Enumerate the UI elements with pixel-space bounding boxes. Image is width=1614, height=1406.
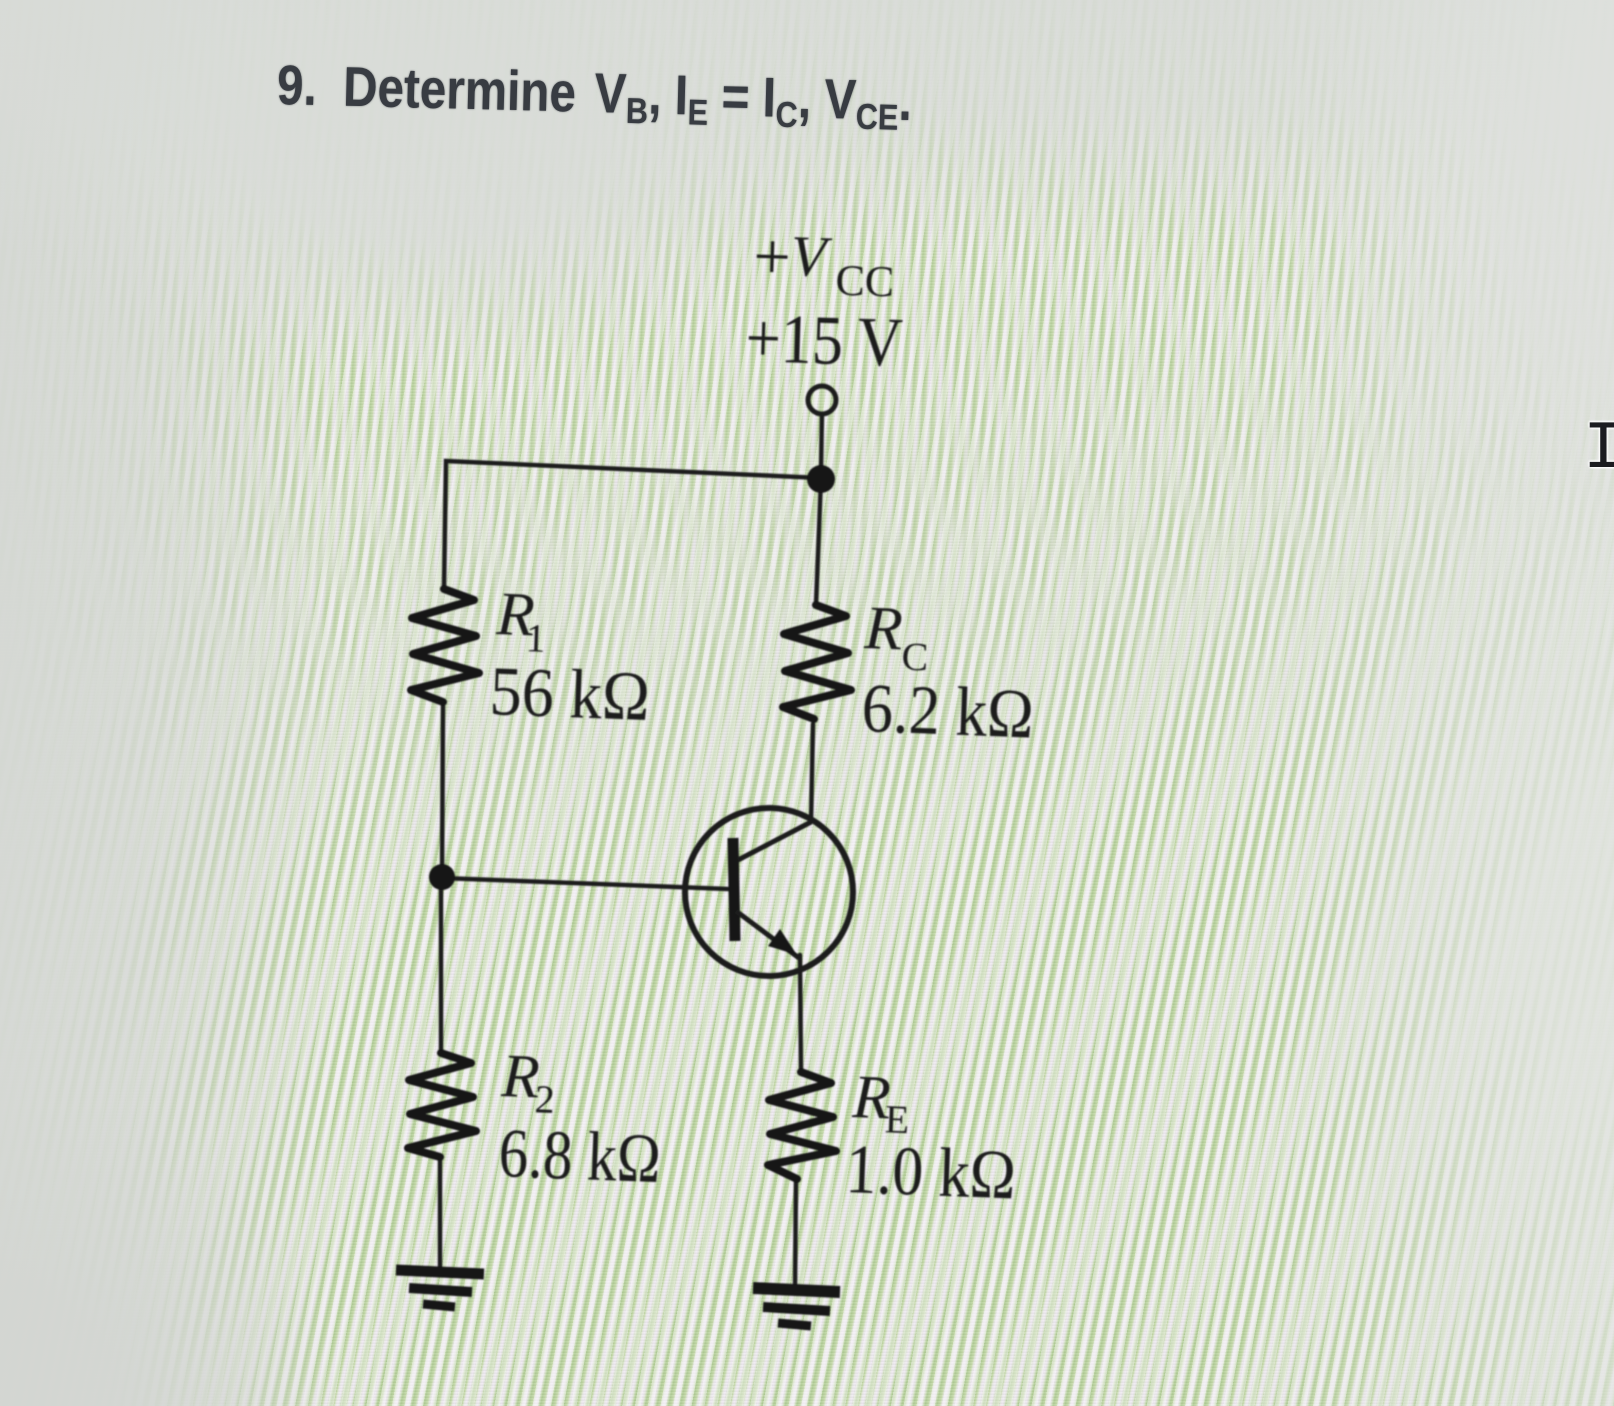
- wire RE to right ground: [795, 1179, 796, 1289]
- svg-text:1.0 kΩ: 1.0 kΩ: [844, 1131, 1017, 1214]
- transistor emitter lead: [736, 911, 799, 958]
- base node dot: [429, 864, 455, 890]
- emitter arrowhead: [768, 929, 797, 955]
- svg-text:6.8 kΩ: 6.8 kΩ: [497, 1115, 662, 1198]
- svg-text:RC: RC: [862, 594, 931, 679]
- transistor collector lead: [738, 822, 811, 860]
- junction dot at Vcc rail: [807, 465, 835, 493]
- resistor R2 zigzag: [408, 1053, 476, 1157]
- resistor RE zigzag: [768, 1072, 836, 1179]
- wire top horizontal and left vertical to R1: [444, 461, 821, 589]
- wire emitter to RE: [800, 955, 801, 1072]
- transistor base bar: [733, 838, 735, 941]
- text cursor I at right edge: [1583, 411, 1614, 488]
- Vcc terminal (open circle): [808, 386, 836, 414]
- resistor RC zigzag: [783, 605, 851, 719]
- transistor body circle: [685, 808, 853, 976]
- resistor R1 zigzag: [411, 589, 479, 702]
- wire base node to transistor base: [442, 878, 728, 889]
- wire base node to R2: [439, 878, 444, 1053]
- wire RC to collector: [811, 724, 813, 822]
- svg-text:R1: R1: [494, 580, 548, 661]
- svg-text:R2: R2: [499, 1042, 557, 1122]
- wire junction to RC: [816, 479, 821, 605]
- left ground symbol: [396, 1270, 484, 1307]
- wire R2 to left ground: [438, 1157, 443, 1266]
- svg-text:56 kΩ: 56 kΩ: [488, 653, 651, 736]
- svg-text:+15 V: +15 V: [744, 300, 903, 382]
- svg-text:+VCC: +VCC: [752, 220, 896, 306]
- wire R1 to base node: [442, 706, 443, 878]
- svg-text:RE: RE: [850, 1063, 911, 1142]
- wire Vcc terminal to junction: [821, 414, 822, 468]
- transistor Q1: [685, 808, 853, 976]
- right ground symbol: [753, 1288, 840, 1326]
- title: problem statement: [276, 52, 912, 133]
- svg-text:6.2 kΩ: 6.2 kΩ: [860, 670, 1035, 754]
